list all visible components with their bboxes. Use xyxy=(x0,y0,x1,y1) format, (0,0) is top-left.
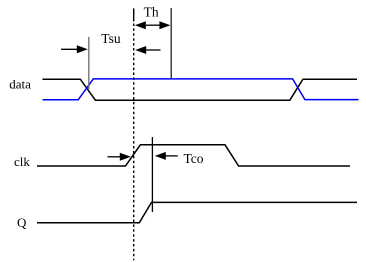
svg-text:Q: Q xyxy=(17,215,27,230)
Tsu arrow pointing left xyxy=(135,46,160,54)
data bus blue line xyxy=(43,79,359,100)
clk waveform xyxy=(37,145,350,166)
dashed clock-edge line solid top segment xyxy=(133,8,135,21)
Tco boundary line xyxy=(151,137,153,212)
clk edge arrow pointing right xyxy=(108,153,131,161)
data bus black line xyxy=(43,79,358,100)
Q waveform xyxy=(37,202,357,222)
svg-text:data: data xyxy=(9,76,31,91)
Th double arrow xyxy=(135,21,171,29)
vertical marker at data transition xyxy=(88,37,90,89)
Tco arrow pointing left xyxy=(155,152,178,160)
svg-text:clk: clk xyxy=(14,154,30,169)
Tsu arrow pointing right xyxy=(61,45,88,53)
svg-text:Tsu: Tsu xyxy=(101,31,121,46)
svg-text:Th: Th xyxy=(144,4,159,19)
svg-text:Tco: Tco xyxy=(184,151,204,166)
dashed clock-edge line xyxy=(133,21,135,260)
Th right boundary line xyxy=(170,8,172,78)
